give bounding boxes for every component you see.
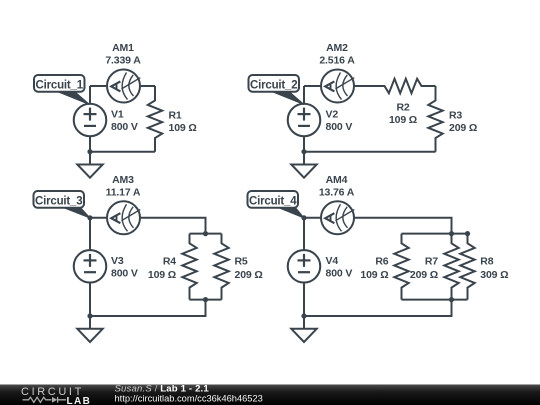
resistor R2: [354, 79, 436, 93]
voltage source V3: [74, 250, 107, 283]
svg-text:11.17 A: 11.17 A: [106, 186, 141, 198]
svg-text:R6: R6: [375, 256, 388, 268]
svg-text:109 Ω: 109 Ω: [389, 114, 417, 126]
svg-text:209 Ω: 209 Ω: [410, 269, 438, 281]
wire parallel bottom to node c4: [304, 300, 452, 316]
resistor R1: [148, 86, 162, 152]
svg-text:309 Ω: 309 Ω: [480, 269, 508, 281]
svg-text:209 Ω: 209 Ω: [235, 269, 263, 281]
node label Circuit_1: [56, 91, 90, 105]
junction parallel top R8: [465, 231, 470, 236]
ground: [77, 316, 102, 342]
svg-text:109 Ω: 109 Ω: [148, 269, 176, 281]
wire R3 bottom to node: [304, 151, 436, 153]
wire AM3 right to parallel top: [140, 218, 206, 234]
wire AM1 right to R1 top corner: [140, 85, 155, 87]
svg-text:109 Ω: 109 Ω: [169, 122, 197, 134]
ground: [77, 152, 102, 178]
svg-text:R4: R4: [163, 256, 176, 268]
resistor R4: [182, 234, 196, 300]
svg-text:AM2: AM2: [326, 42, 348, 54]
wire node to V4 top: [303, 218, 305, 250]
junction V4-ground: [301, 313, 306, 318]
wire parallel bottom to node: [90, 300, 206, 316]
voltage source V2: [288, 104, 321, 137]
svg-text:R7: R7: [425, 256, 438, 268]
wire V3 bottom to node: [89, 283, 91, 316]
ground: [291, 316, 316, 342]
ammeter AM3: [107, 201, 140, 234]
svg-text:800 V: 800 V: [326, 268, 353, 280]
svg-text:AM1: AM1: [112, 42, 134, 54]
junction parallel top: [203, 231, 208, 236]
junction V2-R3-ground: [301, 149, 306, 154]
wire node to AM3 left: [90, 217, 107, 219]
wire V1 bottom to node: [89, 136, 91, 151]
svg-text:Circuit_3: Circuit_3: [35, 195, 82, 207]
wire V2 bottom to node: [303, 136, 305, 151]
svg-text:Circuit_4: Circuit_4: [249, 195, 297, 207]
logo resistor-diode squiggle: [23, 397, 67, 402]
svg-text:R2: R2: [396, 101, 409, 113]
junction V3-ground: [87, 313, 92, 318]
junction node Circuit_4: [301, 215, 306, 220]
svg-text:2.516 A: 2.516 A: [319, 55, 355, 67]
svg-text:V2: V2: [326, 109, 339, 121]
ammeter AM4: [321, 201, 354, 234]
svg-text:800 V: 800 V: [326, 121, 353, 133]
svg-text:209 Ω: 209 Ω: [449, 122, 477, 134]
svg-text:V4: V4: [326, 255, 339, 267]
wire R1 bottom to node: [90, 151, 155, 153]
resistor R3: [428, 86, 442, 152]
wire corner to AM2 left: [304, 85, 321, 87]
voltage source V4: [288, 250, 321, 283]
junction parallel top R7: [449, 231, 454, 236]
wire parallel top bar c4: [402, 233, 468, 235]
svg-text:R1: R1: [169, 110, 182, 122]
svg-text:LAB: LAB: [67, 396, 92, 405]
wire V2 top to corner: [303, 86, 305, 104]
wire parallel bottom bar c4: [402, 299, 468, 301]
ammeter AM1: [107, 70, 140, 103]
junction parallel bottom: [203, 297, 208, 302]
svg-text:109 Ω: 109 Ω: [360, 269, 388, 281]
svg-text:7.339 A: 7.339 A: [105, 55, 141, 67]
voltage source V1: [74, 104, 107, 137]
node label Circuit_3: [62, 207, 90, 218]
wire node to V3 top: [89, 218, 91, 250]
wire V1 top to corner: [89, 86, 91, 104]
junction V1-R1-ground: [87, 149, 92, 154]
svg-text:R8: R8: [480, 256, 493, 268]
svg-text:AM3: AM3: [112, 174, 134, 186]
wire node to AM4 left: [304, 217, 321, 219]
node label Circuit_4: [277, 207, 304, 218]
svg-text:AM4: AM4: [326, 174, 348, 186]
wire AM4 right to parallel top: [354, 218, 452, 234]
svg-text:Circuit_2: Circuit_2: [250, 79, 297, 91]
resistor R8: [460, 234, 474, 300]
svg-text:800 V: 800 V: [111, 268, 138, 280]
junction node Circuit_3: [87, 215, 92, 220]
ammeter AM2: [321, 70, 354, 103]
resistor R5: [214, 234, 228, 300]
svg-text:13.76 A: 13.76 A: [319, 186, 355, 198]
svg-text:http://circuitlab.com/cc36k46h: http://circuitlab.com/cc36k46h46523: [115, 394, 263, 404]
svg-text:R3: R3: [449, 110, 462, 122]
resistor R6: [394, 234, 408, 300]
svg-text:Circuit_1: Circuit_1: [36, 79, 84, 91]
junction parallel bottom c4: [449, 297, 454, 302]
node label Circuit_2: [271, 91, 305, 105]
svg-text:800 V: 800 V: [111, 121, 138, 133]
svg-text:R5: R5: [235, 256, 248, 268]
resistor R7: [444, 234, 458, 300]
svg-text:V3: V3: [111, 255, 124, 267]
wire V4 bottom to node: [303, 283, 305, 316]
wire corner to AM1 left: [90, 85, 107, 87]
wire parallel bottom bar: [190, 299, 222, 301]
ground: [291, 152, 316, 178]
wire parallel top bar: [190, 233, 222, 235]
svg-text:V1: V1: [111, 109, 124, 121]
